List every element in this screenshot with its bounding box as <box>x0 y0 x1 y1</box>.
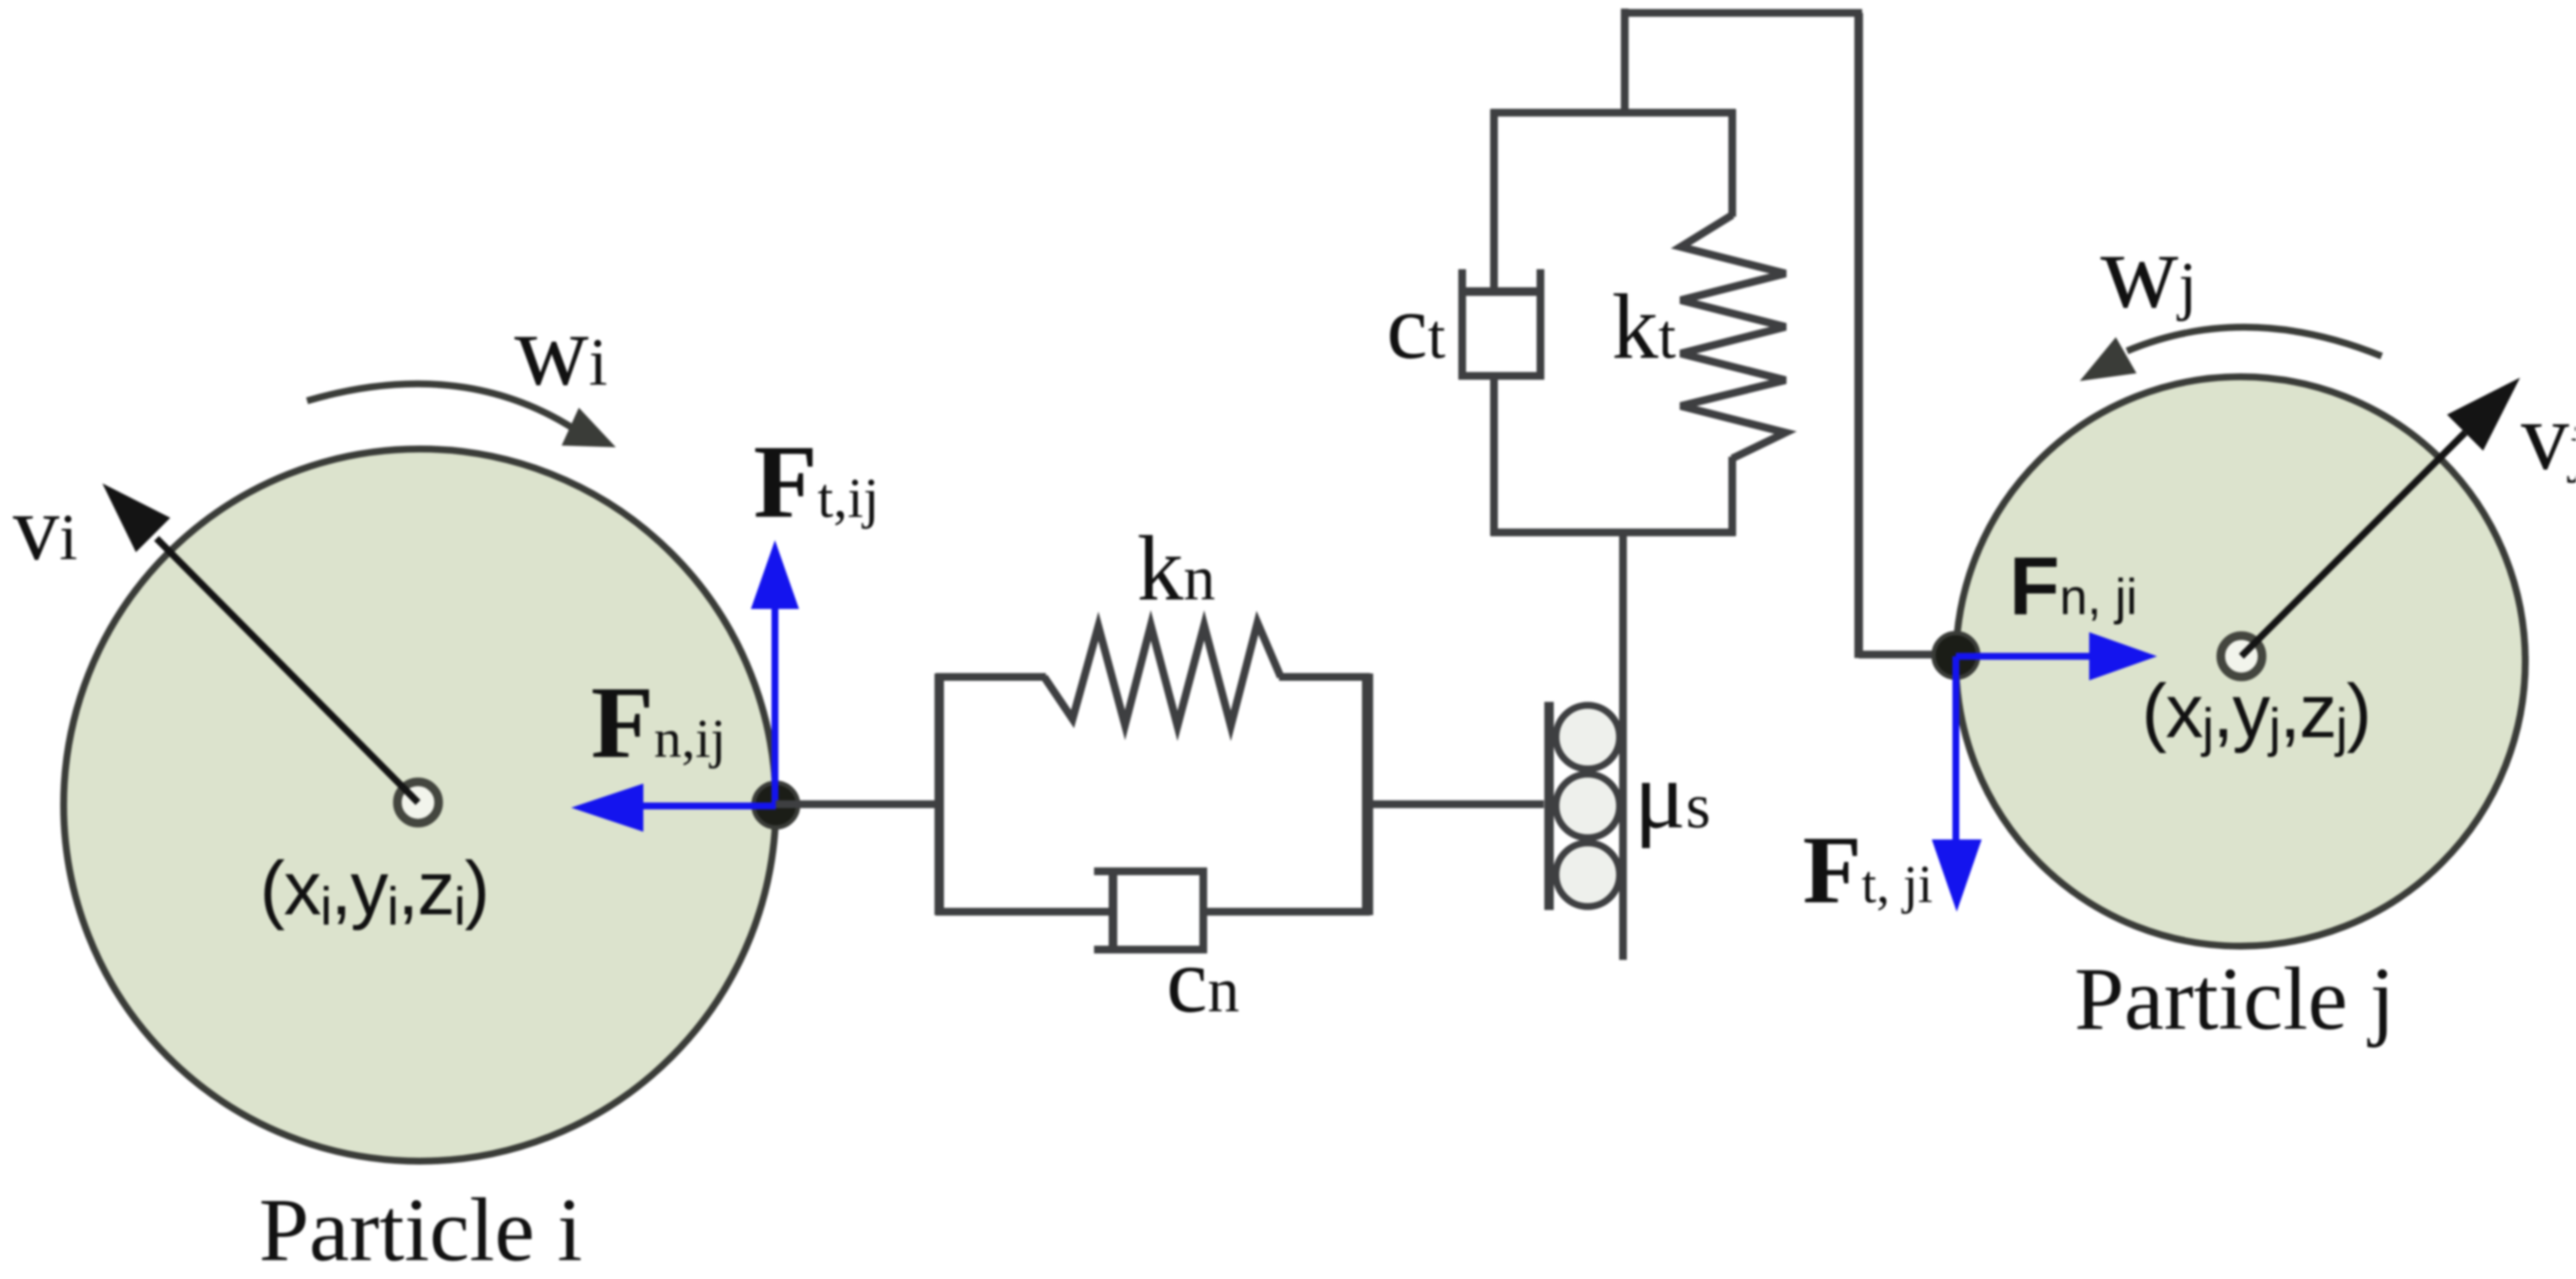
wire contact-i to kn box <box>776 801 939 809</box>
particle j center marker (xj,yj,zj) node <box>2221 636 2262 677</box>
kn-cn parallel box left rail <box>935 673 944 915</box>
svg-text:vj: vj <box>2521 384 2576 490</box>
damper ct rod lower <box>1491 376 1498 536</box>
kt-ct box bottom wire <box>1491 529 1736 537</box>
slider roller 2 <box>1556 774 1620 838</box>
slider roller 3 <box>1556 843 1620 907</box>
wire cn cup to right rail <box>1203 908 1370 916</box>
wire kn box to slider <box>1367 801 1544 809</box>
contact node i <box>753 783 798 827</box>
wire bottom-left to cn piston <box>936 908 1111 916</box>
force arrow Ft,ij (blue, up) <box>751 540 799 805</box>
damper ct cylinder cup <box>1462 269 1540 376</box>
rotation arrow wj <box>2080 327 2382 381</box>
contact node j <box>1934 633 1978 678</box>
wire stem above kt-ct box <box>1621 9 1629 113</box>
slider rail vertical wire <box>1620 532 1627 960</box>
wire top-right of kn <box>1279 673 1370 681</box>
slider friction plate <box>1545 702 1554 910</box>
kt-ct box top wire <box>1491 109 1736 117</box>
velocity arrow vi <box>102 483 418 802</box>
spring kt lower lead <box>1729 457 1737 536</box>
top wire <box>1621 9 1862 17</box>
force arrow Fn,ji (blue, right) <box>1956 632 2157 680</box>
particle i center marker (xi,yi,zi) node <box>397 782 439 823</box>
damper cn cylinder cup <box>1094 871 1203 950</box>
slider roller 1 <box>1556 705 1620 769</box>
spring kt <box>1681 215 1786 458</box>
spring kt upper lead <box>1729 109 1737 217</box>
svg-text:Particle j: Particle j <box>2075 950 2395 1048</box>
kn-cn parallel box right rail <box>1362 673 1374 915</box>
spring kn <box>1044 623 1281 726</box>
damper ct rod upper <box>1491 109 1498 289</box>
force arrow Ft,ji (blue, down) <box>1932 656 1982 912</box>
svg-text:Particle i: Particle i <box>259 1179 582 1279</box>
rotation arrow wi <box>307 384 616 447</box>
particle j body <box>1956 377 2525 946</box>
force arrow Fn,ij (blue, left) <box>571 784 776 832</box>
wire to contact j <box>1859 651 1956 659</box>
damper ct piston plate <box>1460 287 1538 296</box>
damper cn piston plate <box>1109 874 1117 947</box>
particle i body <box>64 449 776 1161</box>
wire top-left of kn <box>936 673 1046 681</box>
right drop wire <box>1854 13 1863 658</box>
velocity arrow vj <box>2241 378 2520 656</box>
